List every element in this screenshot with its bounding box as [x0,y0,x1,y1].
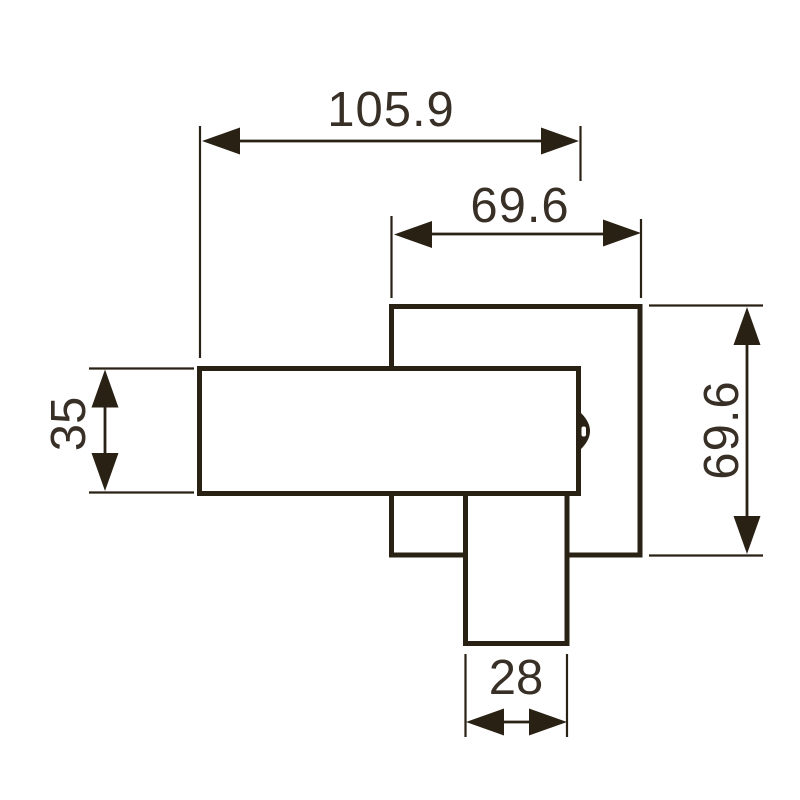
spout (bottom rectangle) [466,492,568,644]
screw detail on handle right edge [581,413,590,449]
screw slot (white notch) [582,427,587,437]
dimension 35: dimension line [104,405,107,455]
dimension 105.9: left arrowhead [202,128,240,155]
dimension 105.9: dimension line [238,140,543,143]
dimension 28: right arrowhead [529,709,567,736]
dimension 69.6 right: bottom extension line [649,554,763,556]
dimension 105.9: right extension line [579,126,581,181]
dimension 28: dimension line [502,721,531,724]
dimension 69.6 top: right extension line [640,219,642,298]
dimension 69.6 top: dimension line [430,233,605,236]
handle lever (horizontal rectangle) [200,369,579,494]
dimension 69.6 right: top arrowhead [734,307,761,345]
dimension 35: up arrowhead [92,370,119,408]
svg-text:69.6: 69.6 [470,179,569,233]
svg-text:105.9: 105.9 [327,83,455,137]
dimension 28: right extension line [566,654,568,737]
dimension 69.6 right: dimension line [746,343,749,518]
dimension 35: down arrowhead [92,453,119,491]
dimension 28: left extension line [464,654,466,737]
svg-text:69.6: 69.6 [695,380,749,479]
dimension 69.6 right: bottom arrowhead [734,516,761,554]
dimension 69.6 top: left extension line [390,216,392,298]
dimension 69.6 top: left arrowhead [394,221,432,248]
dimension 28: left arrowhead [466,709,504,736]
dimension 69.6 right: top extension line [649,304,763,306]
svg-text:35: 35 [42,397,96,452]
wall plate (square escutcheon) [392,307,641,556]
dimension 35: bottom extension line [89,491,194,493]
dimension 105.9: right arrowhead [541,128,579,155]
dimension 105.9: left extension line [199,126,201,358]
svg-text:28: 28 [489,651,544,705]
dimension 69.6 top: right arrowhead [603,220,641,247]
dimension 35: top extension line [89,367,194,369]
